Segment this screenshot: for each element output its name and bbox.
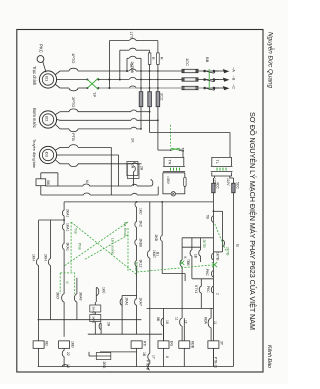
svg-text:TR: TR (168, 160, 172, 165)
svg-text:11: 11 (213, 321, 217, 325)
svg-text:18: 18 (66, 364, 70, 368)
svg-text:PKC: PKC (39, 44, 44, 53)
svg-text:5CC: 5CC (236, 182, 240, 189)
svg-text:Đ2: Đ2 (44, 116, 49, 122)
svg-text:2KB: 2KB (154, 235, 158, 242)
svg-text:KĐB: KĐB (190, 341, 194, 349)
svg-text:1KA1: 1KA1 (66, 223, 70, 231)
svg-text:Truyền động bàn: Truyền động bàn (32, 139, 37, 168)
svg-text:Bơm nước: Bơm nước (32, 108, 37, 128)
svg-text:PTĐ-Б: PTĐ-Б (146, 360, 150, 370)
svg-text:1KAT: 1KAT (152, 250, 156, 258)
svg-text:1KTĐ: 1KTĐ (216, 252, 220, 261)
svg-text:1KC: 1KC (139, 208, 143, 215)
svg-text:~C: ~C (232, 84, 237, 89)
svg-text:Phải: Phải (78, 243, 82, 250)
svg-text:ш: ш (66, 281, 70, 284)
svg-text:~B: ~B (232, 76, 237, 81)
svg-text:3KA1: 3KA1 (66, 243, 70, 251)
svg-text:ĐK: ĐK (46, 181, 50, 187)
svg-text:2ĐG: 2ĐG (102, 362, 106, 369)
svg-text:2KB8: 2KB8 (139, 239, 143, 247)
svg-text:1Đ: 1Đ (194, 254, 198, 259)
svg-text:KĐ: KĐ (45, 341, 49, 346)
svg-text:8: 8 (165, 356, 169, 358)
svg-text:TĐ: TĐ (206, 215, 210, 220)
svg-text:2KTOB: 2KTOB (130, 62, 134, 74)
svg-text:2K: 2K (131, 138, 135, 143)
svg-text:2PTO: 2PTO (71, 97, 76, 107)
svg-text:NTY1: NTY1 (194, 285, 198, 293)
svg-text:1PTO: 1PTO (71, 53, 76, 63)
svg-text:1KH: 1KH (32, 254, 36, 261)
svg-text:1Đ: 1Đ (142, 352, 146, 357)
svg-text:≈36V: ≈36V (166, 176, 170, 185)
svg-text:Trục chính: Trục chính (32, 66, 37, 86)
svg-text:2H: 2H (131, 164, 135, 169)
svg-text:PKC: PKC (206, 286, 210, 293)
svg-text:3K12: 3K12 (139, 260, 143, 268)
svg-text:BB: BB (205, 57, 210, 63)
svg-text:2KH: 2KH (44, 254, 48, 261)
svg-text:TP: TP (92, 92, 97, 97)
svg-text:Kênh Đào: Kênh Đào (266, 345, 272, 368)
svg-text:22: 22 (66, 352, 70, 356)
svg-text:PTB: PTB (71, 133, 76, 141)
svg-text:Ш: Ш (236, 244, 240, 247)
svg-text:TĐB: TĐB (186, 259, 190, 266)
svg-text:PKC: PKC (205, 269, 209, 276)
svg-text:2KTĐ: 2KTĐ (226, 247, 230, 256)
svg-text:2H: 2H (140, 166, 144, 171)
svg-text:2H: 2H (107, 322, 111, 327)
svg-text:RTr: RTr (143, 341, 147, 347)
svg-text:2KA1: 2KA1 (66, 209, 70, 217)
svg-text:Lên, xuống: Lên, xuống (111, 238, 115, 254)
svg-text:1TT: 1TT (129, 32, 133, 39)
svg-text:2KTĐ: 2KTĐ (202, 240, 206, 249)
svg-text:18: 18 (165, 320, 169, 324)
svg-text:M: M (85, 180, 89, 183)
svg-text:ĐG: ĐG (170, 341, 174, 346)
svg-text:Đ1: Đ1 (44, 76, 49, 82)
svg-text:1KỦ: 1KỦ (102, 287, 107, 294)
svg-text:110V: 110V (226, 178, 230, 186)
svg-text:KĐA: KĐA (204, 317, 208, 325)
svg-text:8Đ: 8Đ (156, 317, 160, 322)
svg-text:1Г: 1Г (184, 320, 188, 324)
svg-text:3KƠ: 3KƠ (56, 292, 60, 299)
svg-text:17: 17 (152, 355, 156, 359)
svg-text:Ra, Khoá: Ra, Khoá (123, 222, 127, 236)
svg-text:~A: ~A (232, 67, 237, 72)
svg-text:1CC: 1CC (185, 58, 190, 66)
svg-text:4CC: 4CC (216, 182, 220, 189)
svg-text:Nguyễn Đức Quang: Nguyễn Đức Quang (267, 32, 276, 88)
svg-text:R: R (151, 57, 155, 60)
svg-text:2CC: 2CC (160, 93, 164, 101)
svg-text:1KĐ: 1KĐ (71, 341, 75, 348)
svg-text:Đ3: Đ3 (44, 152, 49, 158)
svg-text:SƠ ĐỒ NGUYÊN LÝ MẠCH ĐIỆN MÁY: SƠ ĐỒ NGUYÊN LÝ MẠCH ĐIỆN MÁY PHAY P623 … (248, 112, 258, 330)
svg-text:PTB-11: PTB-11 (214, 357, 218, 368)
svg-text:TL: TL (215, 160, 219, 164)
svg-text:R: R (160, 57, 164, 60)
svg-text:3KB18: 3KB18 (134, 262, 138, 272)
svg-text:2KC: 2KC (139, 221, 143, 228)
svg-text:1KA7: 1KA7 (139, 298, 143, 306)
svg-text:11: 11 (175, 317, 179, 321)
svg-text:3T: 3T (219, 341, 223, 345)
svg-text:Trái: Trái (74, 228, 78, 234)
svg-text:3KA8: 3KA8 (79, 292, 83, 300)
svg-text:2: 2 (216, 293, 220, 295)
svg-text:2KA1: 2KA1 (125, 298, 129, 306)
